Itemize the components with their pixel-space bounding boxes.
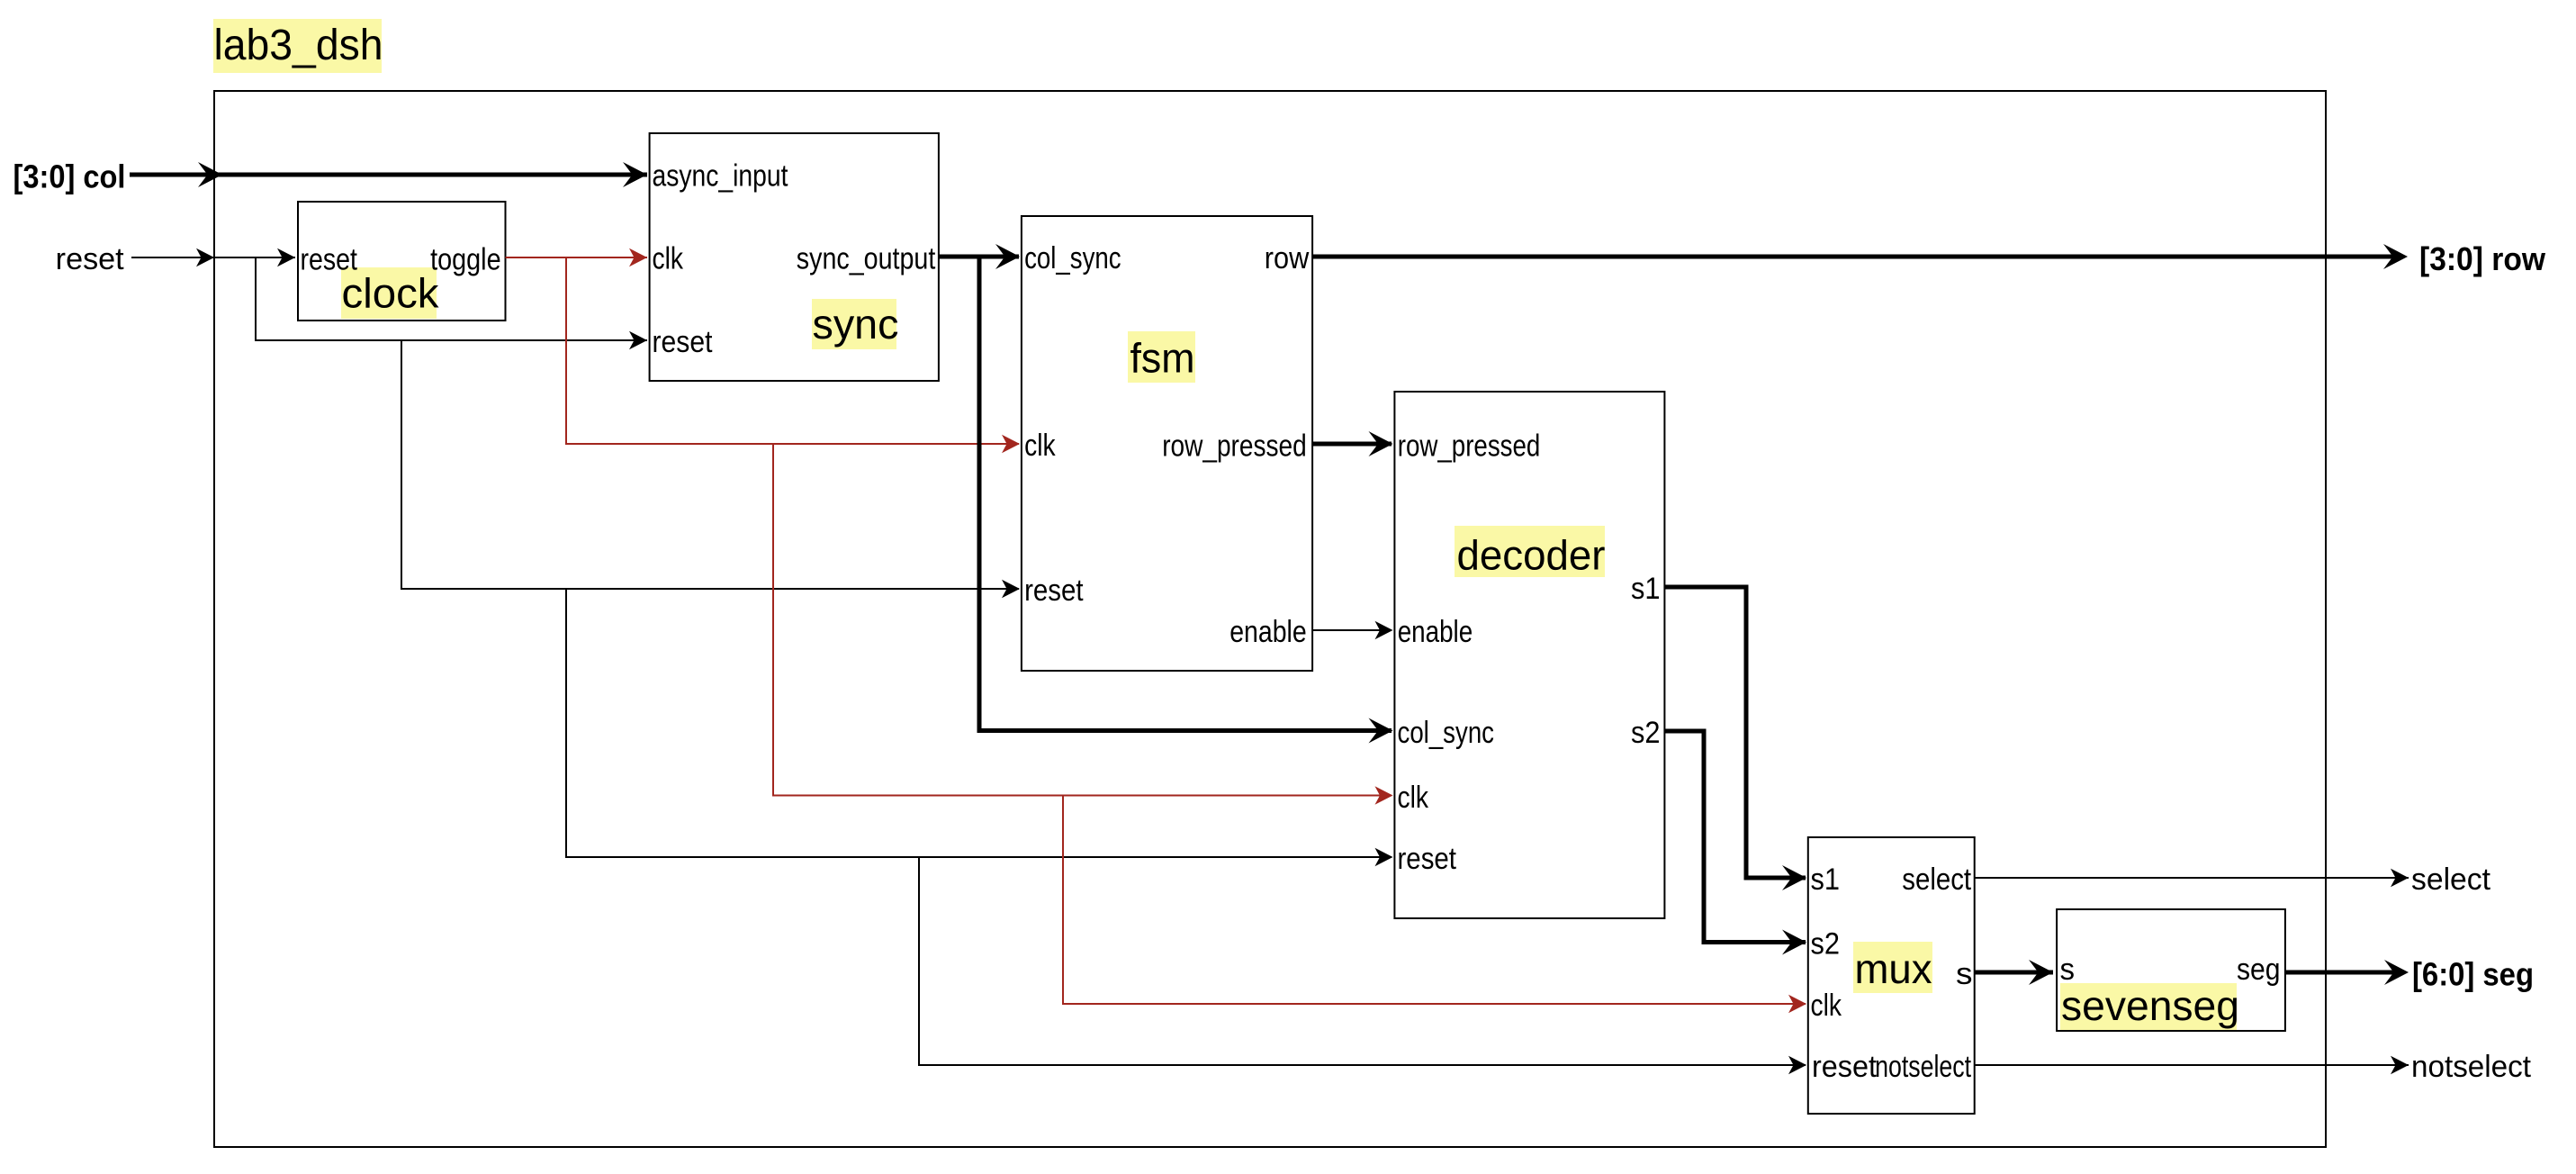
svg-text:row_pressed: row_pressed	[1398, 429, 1541, 463]
svg-text:select: select	[2411, 862, 2491, 897]
svg-text:col_sync: col_sync	[1024, 241, 1121, 275]
svg-text:seg: seg	[2237, 953, 2281, 987]
svg-text:s2: s2	[1811, 927, 1841, 962]
svg-text:async_input: async_input	[653, 159, 788, 194]
svg-text:s: s	[1956, 957, 1973, 991]
svg-text:reset: reset	[56, 242, 125, 276]
svg-text:reset: reset	[653, 325, 713, 359]
svg-text:s1: s1	[1631, 572, 1661, 606]
svg-text:enable: enable	[1229, 615, 1307, 649]
svg-text:clk: clk	[1024, 429, 1056, 463]
svg-text:[6:0] seg: [6:0] seg	[2412, 956, 2534, 993]
svg-text:row_pressed: row_pressed	[1162, 429, 1307, 463]
svg-text:reset: reset	[1024, 573, 1084, 608]
svg-text:notselect: notselect	[1875, 1050, 1971, 1084]
svg-text:mux: mux	[1855, 945, 1932, 992]
svg-text:s2: s2	[1631, 716, 1661, 750]
svg-text:s1: s1	[1811, 862, 1841, 897]
svg-text:reset: reset	[301, 242, 358, 276]
svg-text:[3:0] col: [3:0] col	[14, 158, 126, 195]
svg-text:clk: clk	[1811, 989, 1842, 1023]
svg-text:fsm: fsm	[1130, 335, 1195, 382]
svg-text:reset: reset	[1812, 1050, 1878, 1084]
svg-text:sevenseg: sevenseg	[2061, 982, 2239, 1029]
svg-text:select: select	[1902, 862, 1971, 897]
svg-text:row: row	[1265, 241, 1310, 275]
svg-text:s: s	[2060, 953, 2076, 987]
svg-text:[3:0] row: [3:0] row	[2419, 240, 2546, 277]
svg-text:enable: enable	[1398, 615, 1473, 649]
svg-text:sync: sync	[813, 301, 899, 348]
svg-text:clock: clock	[342, 270, 440, 317]
svg-text:col_sync: col_sync	[1398, 716, 1495, 750]
svg-text:decoder: decoder	[1457, 532, 1606, 579]
svg-text:notselect: notselect	[2411, 1050, 2532, 1084]
svg-text:toggle: toggle	[430, 242, 501, 276]
svg-text:clk: clk	[1398, 781, 1429, 815]
svg-text:sync_output: sync_output	[797, 242, 936, 276]
svg-text:reset: reset	[1398, 842, 1457, 876]
svg-text:clk: clk	[653, 242, 684, 276]
svg-text:lab3_dsh: lab3_dsh	[214, 22, 383, 69]
